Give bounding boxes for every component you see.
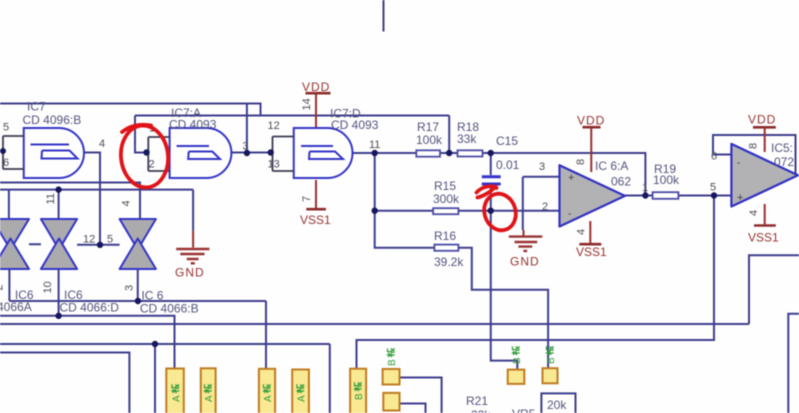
svg-text:R16: R16	[434, 229, 456, 243]
svg-text:CD 4096:B: CD 4096:B	[23, 113, 82, 127]
svg-text:IC7: IC7	[27, 100, 46, 114]
svg-text:100k: 100k	[416, 133, 443, 147]
svg-text:CD 4066:B: CD 4066:B	[140, 302, 199, 316]
svg-text:33k: 33k	[457, 132, 477, 146]
svg-text:4: 4	[576, 229, 588, 235]
svg-text:VDD: VDD	[748, 113, 776, 127]
svg-text:VDD: VDD	[302, 80, 330, 94]
svg-text:GND: GND	[510, 255, 540, 269]
svg-text:R17: R17	[417, 120, 439, 134]
svg-text:B: B	[546, 357, 557, 364]
svg-text:VSS1: VSS1	[576, 245, 607, 259]
svg-text:8: 8	[575, 159, 587, 165]
svg-text:7: 7	[301, 196, 313, 202]
svg-text:CD 4093: CD 4093	[169, 118, 217, 132]
svg-text:VSS1: VSS1	[300, 213, 331, 227]
svg-text:IC 6:A: IC 6:A	[595, 159, 628, 173]
svg-text:100k: 100k	[653, 173, 680, 187]
svg-text:39.2k: 39.2k	[434, 255, 464, 269]
svg-text:4: 4	[748, 210, 760, 216]
svg-text:4066A: 4066A	[0, 300, 32, 314]
svg-text:062: 062	[611, 175, 631, 189]
svg-text:R21: R21	[466, 394, 488, 408]
svg-text:CD 4093: CD 4093	[331, 118, 379, 132]
svg-text:072: 072	[774, 155, 794, 169]
svg-text:1: 1	[642, 182, 648, 194]
svg-text:VR5: VR5	[512, 407, 536, 413]
svg-text:B: B	[387, 359, 398, 366]
svg-text:2: 2	[542, 201, 548, 213]
svg-text:5: 5	[3, 122, 9, 134]
svg-text:12: 12	[268, 120, 280, 132]
svg-text:3: 3	[243, 141, 249, 153]
svg-text:20k: 20k	[547, 398, 567, 412]
svg-text:5: 5	[107, 234, 113, 246]
svg-text:22k: 22k	[471, 408, 491, 413]
svg-text:5: 5	[710, 182, 716, 194]
svg-text:0.01: 0.01	[496, 158, 520, 172]
svg-text:10: 10	[42, 281, 54, 293]
svg-text:11: 11	[45, 193, 57, 204]
svg-text:B: B	[354, 393, 365, 400]
svg-text:11: 11	[369, 139, 380, 151]
svg-text:R15: R15	[434, 179, 456, 193]
svg-text:IC 6: IC 6	[141, 289, 163, 303]
svg-text:8: 8	[748, 143, 760, 149]
svg-text:12: 12	[83, 234, 95, 246]
svg-text:3: 3	[124, 285, 136, 291]
svg-text:300k: 300k	[433, 192, 460, 206]
svg-text:IC5:: IC5:	[771, 141, 793, 155]
svg-text:A: A	[263, 395, 274, 402]
svg-text:GND: GND	[175, 266, 205, 280]
svg-text:4: 4	[121, 200, 133, 206]
svg-text:6: 6	[711, 151, 717, 163]
svg-text:A: A	[172, 395, 183, 402]
svg-text:CD 4066:D: CD 4066:D	[60, 301, 120, 315]
svg-text:+: +	[568, 172, 574, 184]
svg-text:A: A	[297, 395, 308, 402]
svg-text:13: 13	[268, 159, 280, 171]
svg-text:+: +	[737, 192, 743, 204]
svg-text:A: A	[204, 395, 215, 402]
svg-text:VSS1: VSS1	[748, 231, 779, 245]
svg-text:2: 2	[0, 284, 6, 290]
svg-text:-: -	[737, 158, 740, 169]
svg-text:6: 6	[3, 157, 9, 169]
svg-text:B: B	[512, 357, 523, 364]
svg-text:2: 2	[149, 159, 155, 171]
svg-text:-: -	[568, 209, 571, 220]
svg-text:3: 3	[539, 161, 545, 173]
svg-text:14: 14	[301, 98, 313, 110]
svg-text:C15: C15	[496, 134, 518, 148]
svg-text:4: 4	[99, 138, 105, 150]
svg-text:VDD: VDD	[577, 114, 605, 128]
